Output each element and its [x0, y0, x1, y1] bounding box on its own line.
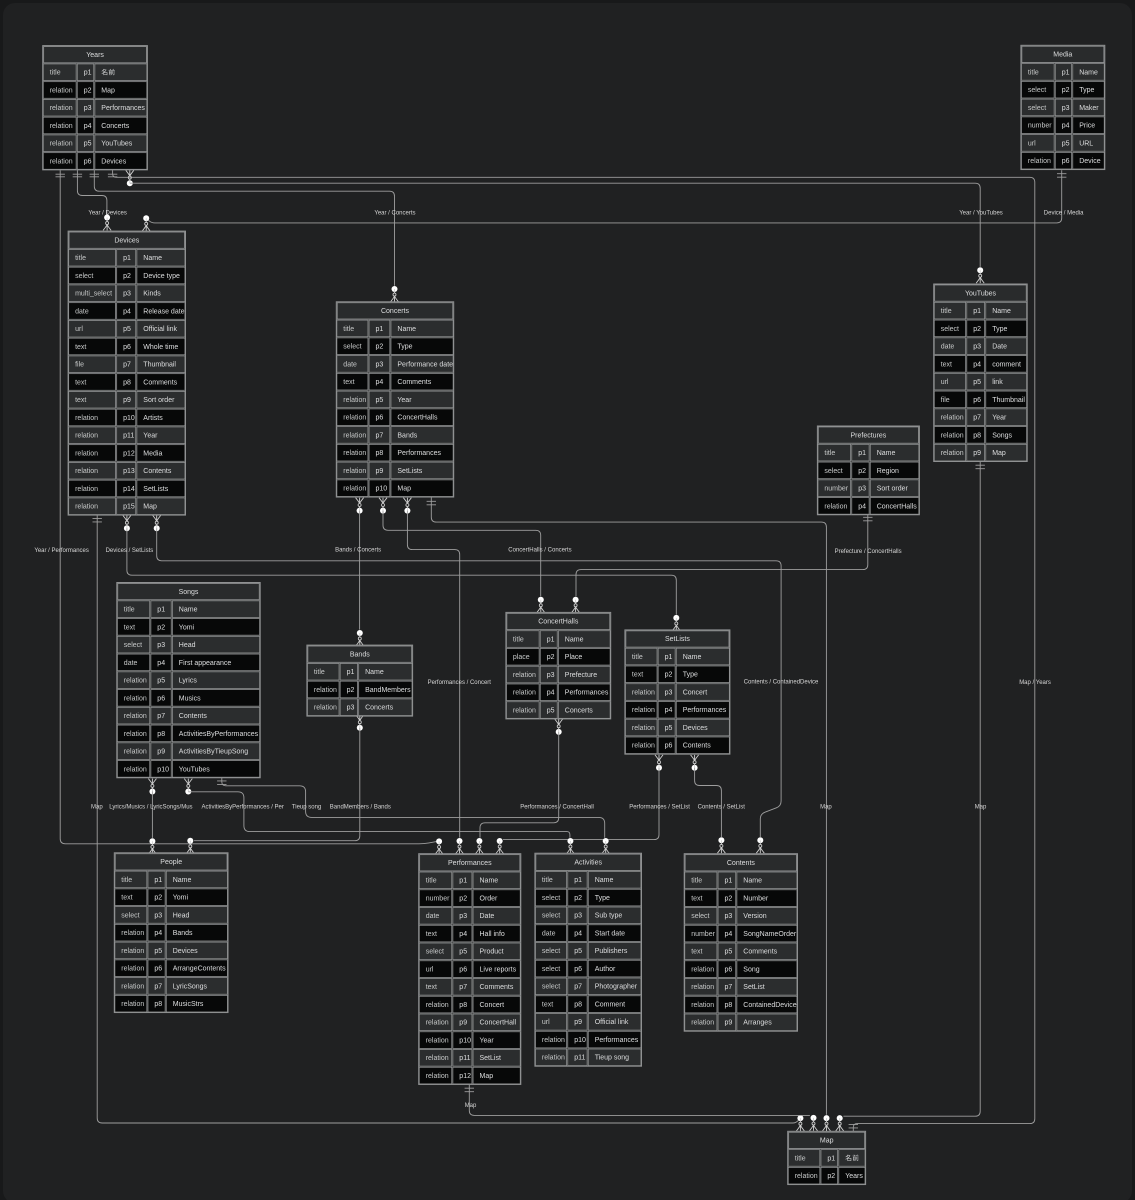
svg-text:relation: relation	[513, 672, 536, 679]
svg-text:comment: comment	[992, 361, 1021, 368]
svg-text:Map: Map	[397, 486, 411, 493]
svg-text:Performances: Performances	[683, 707, 727, 714]
svg-text:p1: p1	[154, 877, 162, 884]
svg-text:relation: relation	[75, 415, 98, 422]
svg-text:relation: relation	[124, 695, 147, 702]
svg-text:p9: p9	[157, 749, 165, 756]
svg-text:Region: Region	[877, 468, 899, 475]
svg-text:relation: relation	[75, 504, 98, 511]
svg-text:BandMembers: BandMembers	[365, 687, 411, 694]
svg-text:p1: p1	[376, 326, 384, 333]
svg-text:url: url	[542, 1019, 550, 1026]
svg-text:relation: relation	[941, 450, 964, 457]
svg-text:title: title	[824, 450, 835, 457]
svg-text:p5: p5	[157, 678, 165, 685]
svg-text:Tieup song: Tieup song	[595, 1055, 629, 1062]
svg-text:p8: p8	[459, 1002, 467, 1009]
svg-text:p4: p4	[459, 931, 467, 938]
svg-text:p6: p6	[376, 415, 384, 422]
svg-text:relation: relation	[513, 690, 536, 697]
svg-text:relation: relation	[124, 766, 147, 773]
svg-text:Lyrics: Lyrics	[179, 678, 198, 685]
entity table Devices	[68, 231, 185, 515]
svg-text:YouTubes: YouTubes	[101, 141, 133, 148]
svg-text:p5: p5	[574, 948, 582, 955]
svg-text:relation: relation	[314, 705, 337, 712]
svg-text:Start date: Start date	[595, 930, 625, 937]
svg-text:p6: p6	[665, 743, 673, 750]
svg-text:ContainedDevice: ContainedDevice	[743, 1002, 796, 1009]
svg-text:p3: p3	[547, 672, 555, 679]
svg-text:p9: p9	[574, 1019, 582, 1026]
svg-text:ConcertHalls / Concerts: ConcertHalls / Concerts	[508, 548, 571, 554]
svg-text:p7: p7	[459, 984, 467, 991]
svg-text:Official link: Official link	[143, 326, 177, 333]
wire Concerts.Performances - Performances.Concert	[403, 498, 463, 854]
svg-text:p1: p1	[157, 607, 165, 614]
svg-text:p10: p10	[459, 1037, 471, 1044]
svg-text:Map: Map	[820, 1138, 834, 1145]
svg-text:Place: Place	[565, 654, 583, 661]
svg-text:p5: p5	[665, 725, 673, 732]
svg-text:p4: p4	[157, 660, 165, 667]
svg-text:LyricSongs: LyricSongs	[173, 983, 208, 990]
svg-text:Concerts: Concerts	[381, 308, 410, 315]
svg-text:relation: relation	[343, 450, 366, 457]
svg-text:select: select	[691, 913, 709, 920]
svg-text:p10: p10	[574, 1037, 586, 1044]
svg-text:select: select	[542, 948, 560, 955]
svg-text:Songs: Songs	[992, 432, 1012, 439]
svg-text:Sort order: Sort order	[877, 486, 909, 493]
svg-text:title: title	[513, 636, 524, 643]
svg-text:relation: relation	[124, 731, 147, 738]
svg-text:relation: relation	[632, 707, 655, 714]
svg-text:title: title	[75, 255, 86, 262]
svg-text:title: title	[121, 877, 132, 884]
svg-text:p2: p2	[154, 895, 162, 902]
svg-text:p3: p3	[376, 361, 384, 368]
svg-text:p3: p3	[574, 913, 582, 920]
svg-text:Performances: Performances	[595, 1037, 639, 1044]
svg-text:p1: p1	[347, 669, 355, 676]
svg-text:relation: relation	[542, 1037, 565, 1044]
svg-text:Type: Type	[1079, 87, 1094, 94]
svg-text:Year / Devices: Year / Devices	[88, 210, 126, 216]
svg-text:Contents / ContainedDevice: Contents / ContainedDevice	[744, 679, 819, 685]
svg-text:p3: p3	[725, 913, 733, 920]
svg-text:p5: p5	[459, 949, 467, 956]
svg-text:p1: p1	[665, 654, 673, 661]
svg-text:Map / Years: Map / Years	[1019, 680, 1051, 686]
wire Concerts.Map - Map	[427, 497, 831, 1131]
svg-text:url: url	[941, 379, 949, 386]
svg-text:relation: relation	[121, 966, 144, 973]
svg-text:relation: relation	[343, 432, 366, 439]
svg-text:Performances: Performances	[448, 860, 492, 867]
svg-text:p6: p6	[154, 966, 162, 973]
svg-text:URL: URL	[1079, 140, 1093, 147]
wire Years.Concerts - Concerts.Year	[90, 170, 399, 302]
svg-text:ConcertHall: ConcertHall	[480, 1020, 517, 1027]
svg-text:Map: Map	[465, 1103, 477, 1109]
svg-text:select: select	[343, 344, 361, 351]
wire Media.Device - Devices.Media	[142, 170, 1066, 231]
svg-text:p12: p12	[459, 1073, 471, 1080]
wire Performances.Map - Map	[465, 1085, 818, 1131]
svg-text:Name: Name	[1079, 69, 1098, 76]
svg-text:p3: p3	[973, 344, 981, 351]
svg-text:p5: p5	[154, 948, 162, 955]
svg-text:Bands: Bands	[350, 651, 370, 658]
svg-text:select: select	[542, 984, 560, 991]
svg-text:p3: p3	[347, 705, 355, 712]
svg-text:relation: relation	[50, 141, 73, 148]
svg-text:relation: relation	[121, 1001, 144, 1008]
svg-text:Name: Name	[179, 607, 198, 614]
svg-text:First appearance: First appearance	[179, 660, 232, 667]
entity table Years	[43, 46, 148, 170]
svg-text:Songs: Songs	[179, 589, 199, 596]
svg-text:title: title	[314, 669, 325, 676]
svg-text:Comments: Comments	[743, 949, 777, 956]
svg-text:Name: Name	[743, 878, 762, 885]
svg-text:p6: p6	[973, 397, 981, 404]
svg-text:url: url	[1028, 140, 1036, 147]
wire Songs.ActivitiesByPerformances - Activities.Performances	[184, 779, 574, 854]
svg-text:relation: relation	[75, 450, 98, 457]
svg-text:url: url	[426, 966, 434, 973]
svg-text:p4: p4	[376, 379, 384, 386]
svg-text:relation: relation	[121, 983, 144, 990]
svg-text:p2: p2	[725, 895, 733, 902]
svg-text:Media: Media	[143, 450, 162, 457]
svg-text:Whole time: Whole time	[143, 344, 178, 351]
entity table YouTubes	[934, 284, 1027, 462]
svg-text:p7: p7	[574, 984, 582, 991]
svg-text:relation: relation	[426, 1055, 449, 1062]
svg-text:Lyrics/Musics / LyricSongs/Mus: Lyrics/Musics / LyricSongs/Mus	[109, 805, 192, 811]
svg-text:relation: relation	[121, 930, 144, 937]
svg-text:Year / Performances: Year / Performances	[34, 548, 88, 554]
svg-text:Head: Head	[173, 912, 190, 919]
svg-text:Name: Name	[173, 877, 192, 884]
svg-text:relation: relation	[314, 687, 337, 694]
svg-text:p4: p4	[725, 931, 733, 938]
svg-text:Head: Head	[179, 642, 196, 649]
svg-text:p4: p4	[84, 123, 92, 130]
svg-text:p10: p10	[123, 415, 135, 422]
svg-text:multi_select: multi_select	[75, 291, 112, 298]
svg-text:Thumbnail: Thumbnail	[143, 362, 176, 369]
svg-text:Year / YouTubes: Year / YouTubes	[959, 210, 1003, 216]
svg-text:select: select	[542, 966, 560, 973]
svg-text:p12: p12	[123, 450, 135, 457]
svg-text:title: title	[632, 654, 643, 661]
svg-text:title: title	[343, 326, 354, 333]
svg-text:select: select	[426, 949, 444, 956]
entity table Contents	[684, 854, 797, 1031]
svg-text:url: url	[75, 326, 83, 333]
svg-text:place: place	[513, 654, 530, 661]
svg-text:Year: Year	[143, 433, 158, 440]
svg-text:Performances / SetList: Performances / SetList	[629, 805, 690, 811]
svg-text:p4: p4	[547, 690, 555, 697]
svg-text:p11: p11	[123, 433, 134, 440]
svg-text:text: text	[691, 949, 702, 956]
entity table Bands	[307, 645, 413, 716]
svg-text:Device: Device	[1079, 158, 1101, 165]
svg-text:title: title	[426, 878, 437, 885]
svg-text:p2: p2	[459, 895, 467, 902]
svg-text:SetList: SetList	[480, 1055, 501, 1062]
svg-text:Year: Year	[480, 1037, 495, 1044]
svg-text:Contents: Contents	[727, 860, 756, 867]
svg-text:p4: p4	[973, 361, 981, 368]
svg-text:Live reports: Live reports	[480, 966, 517, 973]
svg-text:Date: Date	[992, 344, 1007, 351]
svg-text:Performances: Performances	[397, 450, 441, 457]
wire Concerts.ConcertHalls - ConcertHalls.Concerts	[379, 498, 545, 613]
svg-text:SongNameOrder: SongNameOrder	[743, 931, 797, 938]
svg-text:p9: p9	[725, 1020, 733, 1027]
svg-text:Kinds: Kinds	[143, 291, 161, 298]
svg-text:relation: relation	[343, 468, 366, 475]
svg-text:select: select	[824, 468, 842, 475]
svg-text:p2: p2	[973, 326, 981, 333]
svg-text:Prefectures: Prefectures	[851, 432, 887, 439]
entity table Activities	[535, 853, 642, 1066]
svg-text:file: file	[75, 362, 84, 369]
svg-text:relation: relation	[50, 158, 73, 165]
svg-text:title: title	[542, 877, 553, 884]
svg-text:Prefecture: Prefecture	[565, 672, 597, 679]
wire Years.Devices - Devices.Year	[73, 170, 111, 230]
svg-text:relation: relation	[691, 1002, 714, 1009]
svg-text:text: text	[426, 984, 437, 991]
svg-text:p4: p4	[858, 503, 866, 510]
wire SetLists.Performances - Performances.SetList	[496, 755, 663, 854]
svg-text:p3: p3	[157, 642, 165, 649]
svg-text:Activities: Activities	[574, 859, 602, 866]
svg-text:p3: p3	[665, 689, 673, 696]
svg-text:ActivitiesByPerformances / Per: ActivitiesByPerformances / Per	[202, 805, 284, 811]
svg-text:Bands / Concerts: Bands / Concerts	[335, 548, 381, 554]
entity table Songs	[117, 583, 260, 778]
svg-text:Name: Name	[365, 669, 384, 676]
svg-text:p1: p1	[84, 70, 92, 77]
svg-text:p6: p6	[574, 966, 582, 973]
svg-text:Artists: Artists	[143, 415, 163, 422]
svg-text:ActivitiesByTieupSong: ActivitiesByTieupSong	[179, 749, 248, 756]
svg-text:p2: p2	[827, 1173, 835, 1180]
wire Years.YouTubes - YouTubes.Year	[126, 170, 984, 283]
svg-text:Sort order: Sort order	[143, 397, 175, 404]
svg-text:select: select	[542, 913, 560, 920]
svg-text:Year: Year	[397, 397, 412, 404]
svg-text:YouTubes: YouTubes	[965, 290, 997, 297]
svg-text:Devices: Devices	[101, 158, 126, 165]
svg-text:relation: relation	[343, 397, 366, 404]
svg-text:select: select	[121, 912, 139, 919]
svg-text:Hall info: Hall info	[480, 931, 505, 938]
svg-text:relation: relation	[50, 87, 73, 94]
svg-text:Name: Name	[143, 255, 162, 262]
svg-text:p10: p10	[376, 486, 388, 493]
svg-text:p2: p2	[123, 273, 131, 280]
svg-text:p6: p6	[725, 966, 733, 973]
svg-text:Product: Product	[480, 949, 504, 956]
svg-text:title: title	[50, 70, 61, 77]
svg-text:text: text	[75, 379, 86, 386]
svg-text:Concerts: Concerts	[101, 123, 130, 130]
svg-text:Version: Version	[743, 913, 766, 920]
svg-text:Price: Price	[1079, 123, 1095, 130]
svg-text:Type: Type	[397, 344, 412, 351]
svg-text:p3: p3	[858, 486, 866, 493]
svg-text:p11: p11	[459, 1055, 470, 1062]
svg-text:Maker: Maker	[1079, 105, 1099, 112]
svg-text:Musics: Musics	[179, 695, 201, 702]
svg-text:date: date	[124, 660, 138, 667]
svg-text:SetLists: SetLists	[665, 636, 690, 643]
svg-text:p5: p5	[725, 949, 733, 956]
svg-text:p2: p2	[1062, 87, 1070, 94]
svg-text:p5: p5	[1062, 140, 1070, 147]
svg-text:p6: p6	[1062, 158, 1070, 165]
svg-text:Concerts: Concerts	[365, 705, 394, 712]
entity table Concerts	[336, 302, 453, 497]
svg-text:BandMembers / Bands: BandMembers / Bands	[330, 805, 391, 811]
svg-text:Contents: Contents	[683, 743, 712, 750]
svg-text:text: text	[121, 895, 132, 902]
svg-text:Order: Order	[480, 895, 499, 902]
svg-text:ConcertHalls: ConcertHalls	[397, 415, 438, 422]
svg-text:Name: Name	[992, 308, 1011, 315]
svg-text:Devices: Devices	[114, 237, 139, 244]
svg-text:relation: relation	[941, 415, 964, 422]
svg-text:Map: Map	[101, 87, 115, 94]
svg-text:p1: p1	[574, 877, 582, 884]
svg-text:p1: p1	[547, 636, 555, 643]
svg-text:relation: relation	[343, 486, 366, 493]
svg-text:Author: Author	[595, 966, 616, 973]
svg-text:date: date	[426, 913, 440, 920]
svg-text:SetLists: SetLists	[397, 468, 422, 475]
svg-text:relation: relation	[542, 1055, 565, 1062]
entity table Performances	[419, 854, 521, 1085]
svg-text:text: text	[542, 1001, 553, 1008]
svg-text:Performance date: Performance date	[397, 361, 453, 368]
svg-text:People: People	[160, 859, 182, 866]
svg-text:YouTubes: YouTubes	[179, 766, 211, 773]
svg-text:relation: relation	[513, 707, 536, 714]
entity table Map	[788, 1131, 866, 1184]
svg-text:Name: Name	[683, 654, 702, 661]
svg-text:relation: relation	[426, 1037, 449, 1044]
entity table Media	[1021, 45, 1105, 169]
entity table SetLists	[625, 630, 730, 754]
svg-text:date: date	[542, 930, 556, 937]
svg-text:title: title	[691, 878, 702, 885]
svg-text:Map: Map	[480, 1073, 494, 1080]
svg-text:relation: relation	[632, 725, 655, 732]
svg-text:p14: p14	[123, 486, 135, 493]
svg-text:p1: p1	[123, 255, 131, 262]
wire Devices.Contents - Contents.ContainedDevice	[153, 515, 781, 853]
svg-text:text: text	[75, 397, 86, 404]
svg-text:relation: relation	[50, 105, 73, 112]
svg-text:Name: Name	[397, 326, 416, 333]
svg-text:relation: relation	[1028, 158, 1051, 165]
svg-text:select: select	[1028, 105, 1046, 112]
svg-text:Year: Year	[992, 415, 1007, 422]
svg-text:p3: p3	[84, 105, 92, 112]
svg-text:number: number	[1028, 123, 1052, 130]
wire Devices.Map - Map	[93, 515, 805, 1131]
svg-text:relation: relation	[121, 948, 144, 955]
svg-text:text: text	[426, 931, 437, 938]
svg-text:p6: p6	[84, 158, 92, 165]
svg-text:date: date	[343, 361, 357, 368]
svg-text:relation: relation	[343, 415, 366, 422]
svg-text:number: number	[691, 931, 715, 938]
wire Concerts.Bands - Bands.Concerts	[356, 498, 364, 646]
wire Years.Map - Map.Years	[108, 170, 1035, 1131]
svg-text:p11: p11	[574, 1055, 585, 1062]
svg-text:p3: p3	[1062, 105, 1070, 112]
svg-text:p8: p8	[973, 432, 981, 439]
svg-text:Contents: Contents	[143, 468, 172, 475]
wire Years.Performances - Performances.Year	[56, 170, 444, 854]
svg-text:ActivitiesByPerformances: ActivitiesByPerformances	[179, 731, 259, 738]
svg-text:p8: p8	[154, 1001, 162, 1008]
svg-text:Devices / SetLists: Devices / SetLists	[106, 548, 154, 554]
svg-text:Thumbnail: Thumbnail	[992, 397, 1025, 404]
svg-text:relation: relation	[691, 984, 714, 991]
svg-text:p9: p9	[376, 468, 384, 475]
svg-text:Concert: Concert	[480, 1002, 505, 1009]
svg-text:date: date	[75, 308, 89, 315]
svg-text:p1: p1	[827, 1155, 835, 1162]
svg-text:relation: relation	[632, 743, 655, 750]
svg-text:p4: p4	[154, 930, 162, 937]
svg-text:text: text	[124, 624, 135, 631]
svg-text:Yomi: Yomi	[179, 624, 195, 631]
svg-text:Publishers: Publishers	[595, 948, 628, 955]
svg-text:Devices: Devices	[173, 948, 198, 955]
svg-text:SetLists: SetLists	[143, 486, 168, 493]
svg-text:link: link	[992, 379, 1003, 386]
svg-text:p1: p1	[858, 450, 866, 457]
svg-text:Concerts: Concerts	[565, 707, 594, 714]
svg-text:p3: p3	[123, 291, 131, 298]
svg-text:p1: p1	[973, 308, 981, 315]
svg-text:text: text	[632, 672, 643, 679]
svg-text:p5: p5	[123, 326, 131, 333]
svg-text:Years: Years	[86, 52, 104, 59]
svg-text:p9: p9	[459, 1020, 467, 1027]
svg-text:Contents: Contents	[179, 713, 208, 720]
svg-text:Performances / Concert: Performances / Concert	[428, 680, 492, 686]
svg-text:text: text	[343, 379, 354, 386]
svg-text:p8: p8	[123, 379, 131, 386]
svg-text:p5: p5	[376, 397, 384, 404]
svg-text:p7: p7	[973, 415, 981, 422]
svg-text:p2: p2	[665, 672, 673, 679]
svg-text:Official link: Official link	[595, 1019, 629, 1026]
svg-text:p9: p9	[123, 397, 131, 404]
